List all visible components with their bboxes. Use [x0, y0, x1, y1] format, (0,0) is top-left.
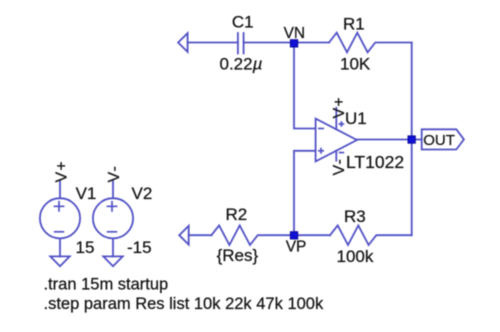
- svg-text:{Res}: {Res}: [217, 246, 259, 265]
- svg-text:15: 15: [76, 238, 95, 257]
- svg-text:-15: -15: [127, 238, 152, 257]
- svg-text:V+: V+: [53, 160, 70, 182]
- svg-text:R2: R2: [226, 205, 248, 224]
- svg-text:C1: C1: [232, 13, 254, 32]
- svg-text:LT1022: LT1022: [346, 152, 404, 172]
- svg-text:0.22µ: 0.22µ: [220, 55, 263, 74]
- svg-text:100k: 100k: [337, 247, 374, 266]
- svg-text:.tran 15m startup: .tran 15m startup: [44, 275, 169, 293]
- svg-text:R3: R3: [344, 207, 366, 226]
- svg-text:R1: R1: [343, 14, 365, 33]
- svg-text:V2: V2: [132, 184, 153, 203]
- svg-text:VP: VP: [286, 238, 307, 255]
- svg-text:VN: VN: [284, 25, 306, 42]
- svg-text:V-: V-: [331, 158, 348, 176]
- svg-text:OUT: OUT: [423, 132, 455, 149]
- svg-text:U1: U1: [345, 109, 367, 128]
- svg-text:10K: 10K: [340, 55, 371, 74]
- svg-text:V-: V-: [106, 165, 123, 183]
- svg-text:.step param Res list 10k 22k 4: .step param Res list 10k 22k 47k 100k: [44, 295, 324, 313]
- svg-text:V1: V1: [76, 184, 97, 203]
- svg-text:V+: V+: [331, 96, 348, 118]
